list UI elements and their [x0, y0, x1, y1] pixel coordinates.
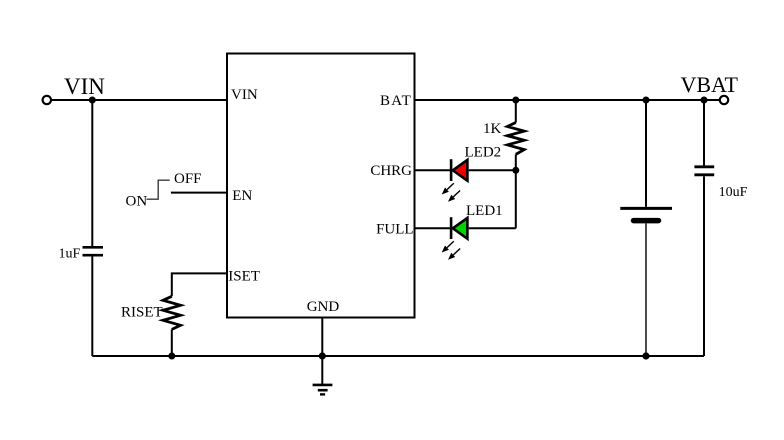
wire FULL pin to LED1	[415, 227, 451, 229]
junction GND/rail	[319, 352, 326, 359]
LED D2 (LED2, red)	[442, 159, 468, 202]
junction battery/rail	[642, 352, 649, 359]
LED1 emission arrows	[447, 241, 454, 247]
wire ISET pin to RISET	[172, 273, 227, 296]
svg-text:GND: GND	[307, 299, 340, 315]
wire C1 to ground rail	[91, 257, 93, 357]
wire VIN input to IC pin VIN	[51, 99, 227, 101]
svg-text:BAT: BAT	[380, 93, 412, 109]
svg-text:1K: 1K	[483, 121, 502, 137]
svg-text:RISET: RISET	[121, 305, 163, 321]
wire battery bottom to rail	[645, 223, 647, 356]
wire BAT pin to VBAT terminal	[415, 99, 720, 101]
svg-text:ON: ON	[126, 194, 148, 210]
wire ground rail	[92, 355, 704, 357]
svg-text:CHRG: CHRG	[370, 163, 412, 179]
svg-text:ISET: ISET	[228, 268, 260, 284]
LED2 emission arrows	[447, 183, 454, 189]
capacitor C1 1uF	[83, 247, 104, 255]
wire CHRG pin to LED2	[415, 169, 451, 171]
svg-text:LED2: LED2	[465, 144, 502, 160]
svg-text:VBAT: VBAT	[681, 72, 739, 97]
svg-text:VIN: VIN	[231, 87, 258, 103]
wire LED2 to R1 node	[469, 169, 516, 171]
wire battery top	[645, 100, 647, 207]
junction BAT/C2	[701, 97, 708, 104]
svg-text:LED1: LED1	[466, 203, 503, 219]
wire GND pin to rail	[321, 318, 323, 357]
junction input node	[89, 97, 96, 104]
wire C2 to rail	[703, 176, 705, 356]
svg-text:OFF: OFF	[174, 171, 202, 187]
wire RISET to ground rail	[171, 329, 173, 356]
junction RISET/rail	[168, 353, 175, 360]
IC U1 charger body	[227, 54, 415, 318]
svg-text:EN: EN	[232, 188, 252, 204]
wire LED1 to LED node	[469, 227, 516, 229]
resistor R1 1K	[507, 123, 524, 155]
annotation ON/OFF logic step	[147, 180, 170, 199]
battery BT1	[620, 208, 672, 220]
LED D1 (LED1, green)	[442, 217, 468, 260]
junction R1/LED2 node	[512, 167, 519, 174]
wire VBAT node down to C2	[703, 100, 705, 165]
terminal VIN	[43, 96, 51, 104]
svg-text:10uF: 10uF	[719, 185, 748, 200]
wire LED node down to LED1	[515, 170, 517, 228]
capacitor C2 10uF	[694, 167, 714, 175]
junction BAT/battery	[643, 97, 650, 104]
wire input node down to C1	[91, 100, 93, 247]
wire R1 to CHRG node	[515, 154, 517, 170]
svg-text:1uF: 1uF	[59, 246, 81, 261]
wire BAT node down to R1	[515, 100, 517, 123]
svg-text:FULL: FULL	[376, 222, 414, 238]
wire EN pin	[171, 192, 227, 194]
resistor RISET	[163, 296, 181, 329]
terminal VBAT	[720, 96, 728, 104]
junction BAT/R1	[512, 97, 519, 104]
svg-text:VIN: VIN	[64, 74, 105, 99]
ground symbol	[313, 356, 333, 394]
